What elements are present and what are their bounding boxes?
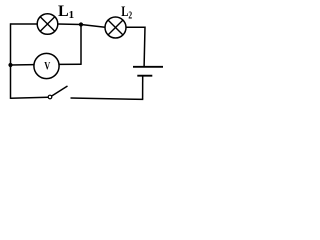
svg-text:V: V — [44, 59, 50, 73]
wire right vertical upper — [143, 27, 146, 67]
svg-text:L2: L2 — [121, 4, 132, 22]
wire voltmeter branch right — [59, 63, 81, 65]
wire battery to bottom-right corner — [142, 76, 144, 99]
node junction dot top — [79, 22, 83, 26]
wire top-left horizontal — [11, 23, 38, 25]
switch pivot — [48, 95, 52, 99]
lamp L2 — [105, 17, 126, 38]
battery short plate — [137, 75, 152, 77]
wire bottom-left horizontal — [11, 96, 49, 99]
wire bottom-right horizontal — [71, 98, 144, 99]
wire node to L2 — [81, 25, 105, 28]
wire L2 to top-right corner — [126, 26, 145, 28]
wire left vertical — [10, 23, 12, 99]
svg-text:L1: L1 — [58, 3, 74, 21]
voltmeter U1 — [34, 53, 59, 78]
wire L1 to node — [58, 23, 81, 26]
wire voltmeter branch left — [11, 64, 35, 66]
wire node vertical — [80, 25, 82, 65]
battery long plate — [133, 66, 163, 68]
node junction dot left — [8, 63, 12, 67]
lamp L1 — [37, 14, 58, 35]
switch lever — [52, 86, 68, 96]
